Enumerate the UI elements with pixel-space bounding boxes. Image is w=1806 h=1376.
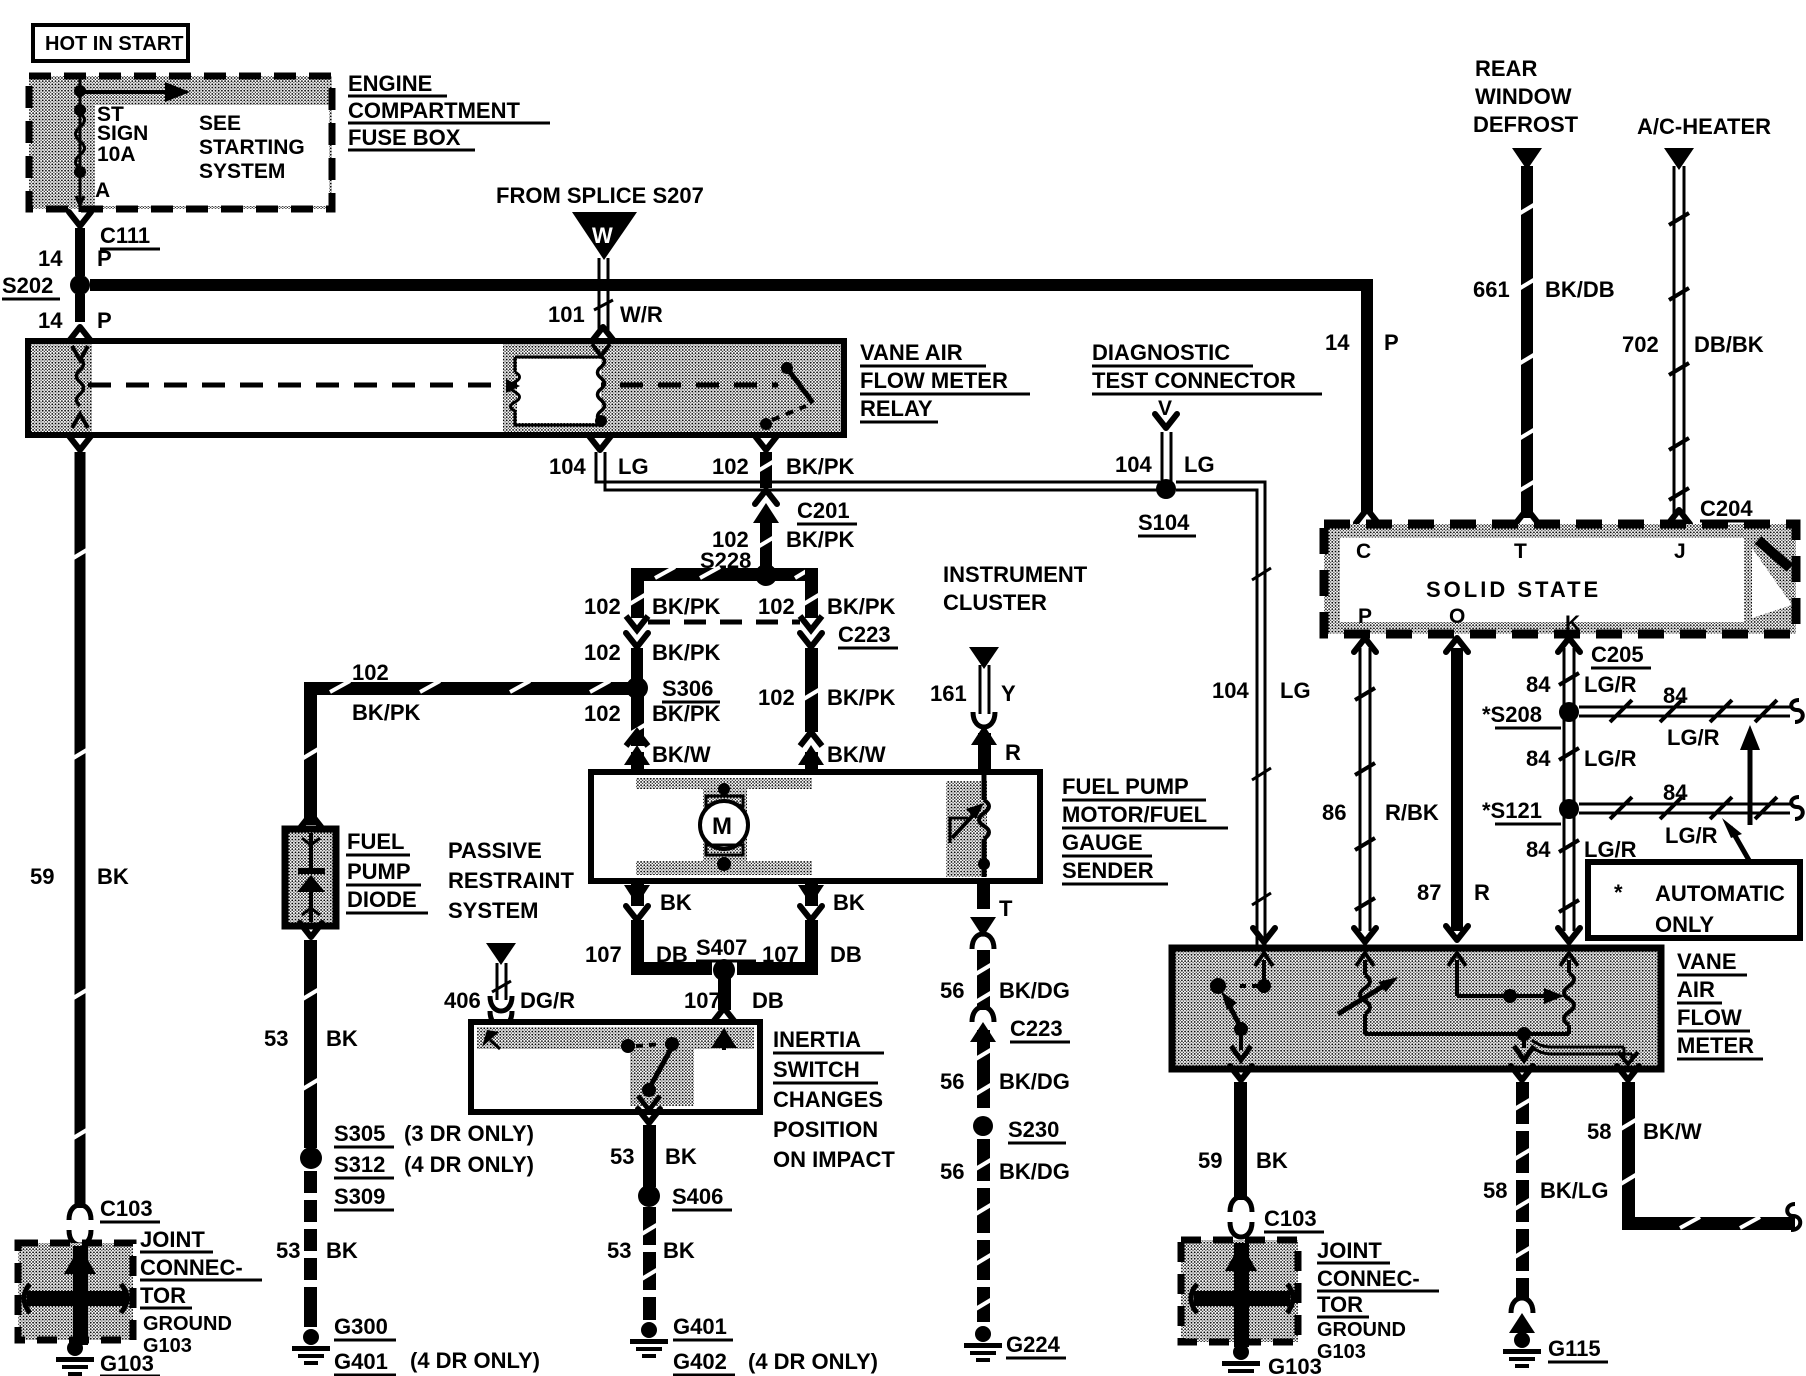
wire BK left exit <box>624 881 712 975</box>
splice S228 <box>700 548 777 586</box>
svg-text:O: O <box>1449 605 1465 628</box>
svg-text:AUTOMATIC: AUTOMATIC <box>1655 881 1785 906</box>
svg-text:FLOW: FLOW <box>1677 1005 1742 1030</box>
fuel pump motor M <box>700 783 748 871</box>
relay dashed link <box>88 383 778 388</box>
svg-text:TOR: TOR <box>140 1283 186 1308</box>
svg-text:G401: G401 <box>334 1349 388 1374</box>
fuel pump box <box>591 772 1040 881</box>
wire 84 LG/R (K) thin <box>1558 638 1580 942</box>
svg-text:LG: LG <box>618 454 649 479</box>
wire 14 P from C111 to S202 <box>38 228 112 276</box>
svg-text:S230: S230 <box>1008 1117 1059 1142</box>
svg-text:BK/PK: BK/PK <box>652 701 721 726</box>
label 84 LG/R between splices <box>1526 746 1637 771</box>
svg-text:84: 84 <box>1663 780 1688 805</box>
svg-text:53: 53 <box>610 1144 634 1169</box>
svg-text:84: 84 <box>1526 837 1551 862</box>
svg-text:FLOW METER: FLOW METER <box>860 368 1008 393</box>
svg-text:K: K <box>1565 612 1580 635</box>
svg-text:W: W <box>592 223 613 248</box>
svg-text:R: R <box>1005 740 1021 765</box>
svg-text:DG/R: DG/R <box>520 988 575 1013</box>
splice S207 W triangle <box>572 212 637 260</box>
svg-text:10A: 10A <box>97 143 136 166</box>
joint connector ground G103 right (dashed box) <box>1181 1240 1298 1347</box>
svg-text:59: 59 <box>30 864 54 889</box>
wire 14 P vertical to C204 <box>1325 279 1399 523</box>
svg-text:GAUGE: GAUGE <box>1062 830 1143 855</box>
connector C201 <box>753 490 857 524</box>
vane switch internals <box>1210 953 1273 1060</box>
splice S407 <box>585 935 862 981</box>
splice S121 <box>1482 798 1579 824</box>
svg-text:107: 107 <box>762 942 799 967</box>
connector C103 right <box>1230 1197 1324 1237</box>
svg-text:SENDER: SENDER <box>1062 858 1154 883</box>
solid state terminals <box>1356 540 1686 635</box>
label JOINT CONNECTOR GROUND G103 left <box>140 1227 262 1357</box>
relay switch right <box>760 362 813 430</box>
svg-text:84: 84 <box>1663 683 1688 708</box>
svg-text:BK/W: BK/W <box>652 742 711 767</box>
svg-text:S407: S407 <box>696 935 747 960</box>
svg-text:BK: BK <box>663 1238 695 1263</box>
svg-text:59: 59 <box>1198 1148 1222 1173</box>
svg-text:ON IMPACT: ON IMPACT <box>773 1147 895 1172</box>
svg-text:S305: S305 <box>334 1121 385 1146</box>
svg-text:53: 53 <box>276 1238 300 1263</box>
svg-text:G300: G300 <box>334 1314 388 1339</box>
svg-text:WINDOW: WINDOW <box>1475 84 1572 109</box>
svg-text:S309: S309 <box>334 1184 385 1209</box>
wire 56 BK/DG to G224 (dashed) <box>940 1139 1070 1322</box>
a/c heater arrow <box>1664 148 1694 170</box>
svg-text:C223: C223 <box>1010 1016 1063 1041</box>
svg-text:G103: G103 <box>1268 1354 1322 1376</box>
svg-text:BK: BK <box>660 890 692 915</box>
inertia switch box <box>471 1022 760 1112</box>
svg-text:BK/LG: BK/LG <box>1540 1178 1608 1203</box>
svg-text:C201: C201 <box>797 498 850 523</box>
svg-text:REAR: REAR <box>1475 56 1537 81</box>
svg-text:JOINT: JOINT <box>140 1227 205 1252</box>
relay box <box>28 341 844 435</box>
svg-text:P: P <box>1358 605 1372 628</box>
ground G401/G402 <box>630 1314 878 1375</box>
svg-text:BK/PK: BK/PK <box>827 685 896 710</box>
wire 102 BK/PK C201 to S228 <box>712 516 855 566</box>
connector C111 <box>69 212 160 249</box>
svg-text:ONLY: ONLY <box>1655 912 1714 937</box>
wire 86 R/BK (P) thin <box>1322 638 1439 942</box>
svg-text:661: 661 <box>1473 277 1510 302</box>
svg-text:CHANGES: CHANGES <box>773 1087 883 1112</box>
svg-text:LG/R: LG/R <box>1584 746 1637 771</box>
wire 53 BK below diode <box>264 923 358 1148</box>
svg-text:C: C <box>1356 540 1371 563</box>
wire 59 BK below vane meter <box>1198 928 1288 1200</box>
svg-text:FUEL PUMP: FUEL PUMP <box>1062 774 1189 799</box>
svg-text:BK: BK <box>326 1026 358 1051</box>
svg-text:W/R: W/R <box>620 302 663 327</box>
splice S208 <box>1482 702 1579 728</box>
wire left branch 102 BK/PK down <box>584 568 721 630</box>
wire 84 LG/R from S121 to right <box>1579 780 1803 848</box>
svg-text:FUEL: FUEL <box>347 829 404 854</box>
wire right branch below C223 to fuel pump <box>758 622 898 774</box>
svg-text:406: 406 <box>444 988 481 1013</box>
diagnostic test connector <box>1092 340 1322 484</box>
wire S228 horizontal tee <box>632 567 817 581</box>
svg-text:G401: G401 <box>673 1314 727 1339</box>
svg-text:S306: S306 <box>662 676 713 701</box>
svg-text:58: 58 <box>1483 1178 1507 1203</box>
svg-text:ENGINE: ENGINE <box>348 71 432 96</box>
svg-text:P: P <box>1384 330 1399 355</box>
svg-text:G224: G224 <box>1006 1332 1061 1357</box>
svg-text:104: 104 <box>549 454 586 479</box>
svg-text:DB: DB <box>656 942 688 967</box>
wire left branch to S306 <box>631 648 643 680</box>
fuel pump diode box <box>285 814 336 926</box>
label FUEL PUMP MOTOR/FUEL GAUGE SENDER <box>1062 774 1228 884</box>
svg-text:JOINT: JOINT <box>1317 1238 1382 1263</box>
svg-text:G103: G103 <box>1317 1341 1366 1363</box>
rear window defrost arrow <box>1512 148 1542 170</box>
svg-text:107: 107 <box>585 942 622 967</box>
wire 161 Y thin <box>930 665 1016 714</box>
svg-text:S104: S104 <box>1138 510 1190 535</box>
svg-text:S406: S406 <box>672 1184 723 1209</box>
svg-text:BK/DG: BK/DG <box>999 1159 1070 1184</box>
svg-text:FUSE BOX: FUSE BOX <box>348 125 461 150</box>
arrow to starting system <box>80 82 190 102</box>
ground G103 right symbol <box>1222 1344 1328 1376</box>
svg-text:GROUND: GROUND <box>143 1313 232 1335</box>
svg-text:RELAY: RELAY <box>860 396 933 421</box>
wire bus 14 P from S202 to right <box>90 279 1373 291</box>
label AUTOMATIC ONLY box <box>1588 862 1800 938</box>
svg-text:702: 702 <box>1622 332 1659 357</box>
splice S230 <box>973 1116 1066 1143</box>
svg-text:CLUSTER: CLUSTER <box>943 590 1047 615</box>
splice S202 <box>2 273 90 299</box>
label HOT IN START <box>33 25 188 61</box>
wire T below sender <box>970 881 1013 949</box>
vane air flow meter box <box>1172 948 1661 1069</box>
label VANE AIR FLOW METER RELAY <box>860 340 1030 422</box>
wire right branch 102 BK/PK down to C223 <box>758 568 896 630</box>
svg-text:BK/W: BK/W <box>1643 1119 1702 1144</box>
svg-text:84: 84 <box>1526 746 1551 771</box>
svg-text:C223: C223 <box>838 622 891 647</box>
wire 87 R (O) <box>1417 638 1490 940</box>
svg-text:101: 101 <box>548 302 585 327</box>
svg-text:87: 87 <box>1417 880 1441 905</box>
svg-text:14: 14 <box>38 308 63 333</box>
connector C103 left <box>69 1196 160 1245</box>
svg-text:BK: BK <box>833 890 865 915</box>
svg-text:VANE: VANE <box>1677 949 1737 974</box>
svg-text:*: * <box>1614 880 1623 905</box>
svg-text:104: 104 <box>1212 678 1249 703</box>
label VANE AIR FLOW METER <box>1677 949 1763 1059</box>
svg-text:T: T <box>1514 540 1527 563</box>
svg-text:SWITCH: SWITCH <box>773 1057 860 1082</box>
wire 104 LG thin double to S104 <box>596 452 1160 490</box>
connector at relay 104 <box>589 436 611 450</box>
vane potentiometer right <box>1448 953 1578 1060</box>
svg-text:R: R <box>1474 880 1490 905</box>
splice S104 <box>1138 479 1196 536</box>
svg-text:DIODE: DIODE <box>347 887 417 912</box>
ground G300/G401 <box>292 1314 540 1375</box>
svg-text:161: 161 <box>930 681 967 706</box>
svg-text:STARTING: STARTING <box>199 136 305 159</box>
svg-text:M: M <box>712 813 732 840</box>
svg-text:BK/PK: BK/PK <box>652 594 721 619</box>
labels C205 / 84 LG/R <box>1526 642 1651 697</box>
wire 102 BK/PK from S306 to left and down to diode <box>300 660 629 825</box>
relay coil center <box>506 344 610 427</box>
wire 84 LG/R from S208 to right <box>1579 683 1803 750</box>
svg-text:DB: DB <box>752 988 784 1013</box>
svg-text:BK/PK: BK/PK <box>827 594 896 619</box>
connector on left branch <box>584 633 721 665</box>
vane variable resistor <box>1338 953 1524 1034</box>
label PASSIVE RESTRAINT SYSTEM <box>448 838 574 923</box>
wire 104 LG from S104 to vane meter <box>1176 482 1311 948</box>
svg-text:58: 58 <box>1587 1119 1611 1144</box>
svg-text:DIAGNOSTIC: DIAGNOSTIC <box>1092 340 1230 365</box>
wire 56 BK/DG to C223 <box>940 950 1070 1010</box>
wire 53 BK to G401 <box>607 1207 695 1320</box>
svg-text:T: T <box>999 896 1013 921</box>
label 84 LG/R below S121 <box>1526 837 1637 862</box>
svg-text:86: 86 <box>1322 800 1346 825</box>
svg-text:(4 DR ONLY): (4 DR ONLY) <box>404 1152 534 1177</box>
wire BK right exit <box>737 881 865 975</box>
connector C223 lower <box>970 1007 1070 1042</box>
svg-text:BK: BK <box>1256 1148 1288 1173</box>
svg-text:CONNEC-: CONNEC- <box>1317 1266 1420 1291</box>
svg-text:PUMP: PUMP <box>347 859 411 884</box>
wire 58 BK/W below vane meter <box>1587 1066 1800 1230</box>
relay coil left <box>72 346 88 428</box>
svg-text:LG/R: LG/R <box>1584 672 1637 697</box>
svg-text:*S208: *S208 <box>1482 702 1542 727</box>
solid state box <box>1324 524 1796 634</box>
ground G224 <box>964 1326 1066 1362</box>
svg-text:G103: G103 <box>143 1335 192 1357</box>
svg-text:C111: C111 <box>100 223 150 248</box>
svg-text:BK/PK: BK/PK <box>786 527 855 552</box>
wire 107 DB from S407 to inertia switch <box>684 978 784 1022</box>
label REAR WINDOW DEFROST <box>1473 56 1579 137</box>
svg-text:G115: G115 <box>1548 1336 1601 1361</box>
svg-text:(4 DR ONLY): (4 DR ONLY) <box>748 1349 878 1374</box>
svg-text:102: 102 <box>758 685 795 710</box>
svg-text:DEFROST: DEFROST <box>1473 112 1579 137</box>
svg-text:MOTOR/FUEL: MOTOR/FUEL <box>1062 802 1207 827</box>
automatic only pointer arrow <box>1722 818 1750 862</box>
svg-text:TEST CONNECTOR: TEST CONNECTOR <box>1092 368 1296 393</box>
splice S305/S312 <box>300 1121 534 1210</box>
splice S406 <box>638 1184 732 1210</box>
svg-text:56: 56 <box>940 1069 964 1094</box>
svg-text:BK: BK <box>665 1144 697 1169</box>
svg-text:VANE AIR: VANE AIR <box>860 340 963 365</box>
svg-text:P: P <box>97 246 112 271</box>
svg-text:C205: C205 <box>1591 642 1644 667</box>
svg-text:SIGN: SIGN <box>97 122 148 145</box>
svg-text:53: 53 <box>607 1238 631 1263</box>
svg-text:S202: S202 <box>2 273 53 298</box>
svg-text:102: 102 <box>758 594 795 619</box>
svg-text:56: 56 <box>940 978 964 1003</box>
splice S306 <box>626 676 720 702</box>
wire 406 DG/R to inertia switch <box>444 943 575 1026</box>
engine compartment fuse box (dashed) <box>29 76 332 209</box>
vane thin wire to BK/W exit <box>1532 1040 1638 1064</box>
svg-text:BK/PK: BK/PK <box>352 700 421 725</box>
svg-text:(4 DR ONLY): (4 DR ONLY) <box>410 1348 540 1373</box>
wire 59 BK from relay to C103 <box>30 436 129 1208</box>
wire 53 BK to G300 (dashed) <box>276 1171 358 1327</box>
svg-text:LG: LG <box>1280 678 1311 703</box>
connector C204 label <box>1700 496 1760 521</box>
svg-text:PASSIVE: PASSIVE <box>448 838 542 863</box>
svg-text:(3 DR ONLY): (3 DR ONLY) <box>404 1121 534 1146</box>
svg-text:56: 56 <box>940 1159 964 1184</box>
wire 102 BK/PK relay to C201 <box>712 452 855 488</box>
label INSTRUMENT CLUSTER <box>943 562 1088 615</box>
svg-text:14: 14 <box>1325 330 1350 355</box>
svg-text:RESTRAINT: RESTRAINT <box>448 868 574 893</box>
label INERTIA SWITCH CHANGES POSITION ON IMPACT <box>773 1027 895 1172</box>
svg-text:METER: METER <box>1677 1033 1754 1058</box>
svg-text:P: P <box>97 308 112 333</box>
svg-text:INSTRUMENT: INSTRUMENT <box>943 562 1088 587</box>
wire 101 W/R (thin) <box>548 258 663 341</box>
wire 702 DB/BK thin <box>1622 166 1764 524</box>
connector to R wire <box>971 712 997 745</box>
svg-text:CONNEC-: CONNEC- <box>140 1255 243 1280</box>
svg-text:SYSTEM: SYSTEM <box>199 160 285 183</box>
fuel gauge sender resistor <box>950 775 990 877</box>
instrument cluster arrow <box>969 647 999 669</box>
connector at relay 102 <box>755 436 777 450</box>
svg-text:102: 102 <box>712 454 749 479</box>
fuse ST SIGN 10A <box>74 76 86 212</box>
wire 56 BK/DG to S230 <box>940 1030 1070 1108</box>
svg-text:BK/DG: BK/DG <box>999 978 1070 1003</box>
svg-text:AIR: AIR <box>1677 977 1715 1002</box>
svg-text:BK/DG: BK/DG <box>999 1069 1070 1094</box>
svg-text:LG/R: LG/R <box>1665 823 1718 848</box>
svg-text:84: 84 <box>1526 672 1551 697</box>
fuse labels <box>95 103 305 202</box>
svg-text:J: J <box>1674 540 1686 563</box>
svg-text:BK/W: BK/W <box>827 742 886 767</box>
svg-text:*S121: *S121 <box>1482 798 1542 823</box>
svg-text:G402: G402 <box>673 1349 727 1374</box>
svg-text:GROUND: GROUND <box>1317 1319 1406 1341</box>
svg-text:LG/R: LG/R <box>1667 725 1720 750</box>
svg-text:BK/PK: BK/PK <box>786 454 855 479</box>
svg-text:INERTIA: INERTIA <box>773 1027 861 1052</box>
svg-text:A/C-HEATER: A/C-HEATER <box>1637 114 1771 139</box>
svg-text:102: 102 <box>584 640 621 665</box>
wire R to fuel sender <box>978 733 1021 774</box>
svg-text:BK: BK <box>326 1238 358 1263</box>
label FUEL PUMP DIODE <box>346 829 428 913</box>
ground G103 left symbol <box>56 1340 160 1376</box>
svg-text:SYSTEM: SYSTEM <box>448 898 538 923</box>
automatic only arrow up <box>1740 725 1760 825</box>
svg-text:FROM SPLICE S207: FROM SPLICE S207 <box>496 183 704 208</box>
wire 53 BK below inertia switch <box>610 1109 697 1187</box>
wire 58 BK/LG below vane meter <box>1483 1066 1608 1300</box>
svg-text:BK: BK <box>97 864 129 889</box>
svg-text:14: 14 <box>38 246 63 271</box>
svg-text:C103: C103 <box>1264 1206 1317 1231</box>
dashed link between branches <box>648 620 800 625</box>
svg-text:POSITION: POSITION <box>773 1117 878 1142</box>
svg-text:104: 104 <box>1115 452 1152 477</box>
svg-text:102: 102 <box>352 660 389 685</box>
svg-text:BK/DB: BK/DB <box>1545 277 1615 302</box>
label JOINT CONNECTOR GROUND G103 right <box>1317 1238 1439 1363</box>
svg-text:107: 107 <box>684 988 721 1013</box>
svg-text:TOR: TOR <box>1317 1292 1363 1317</box>
svg-text:102: 102 <box>584 701 621 726</box>
svg-text:S312: S312 <box>334 1152 385 1177</box>
wire 661 BK/DB <box>1473 166 1615 523</box>
svg-text:A: A <box>95 179 110 202</box>
svg-text:SOLID STATE: SOLID STATE <box>1426 577 1601 602</box>
svg-text:BK/PK: BK/PK <box>652 640 721 665</box>
svg-text:LG: LG <box>1184 452 1215 477</box>
label ENGINE COMPARTMENT FUSE BOX <box>348 71 550 150</box>
svg-text:53: 53 <box>264 1026 288 1051</box>
svg-text:COMPARTMENT: COMPARTMENT <box>348 98 520 123</box>
wire 14 P below S202 <box>38 294 112 341</box>
svg-text:C103: C103 <box>100 1196 153 1221</box>
svg-text:Y: Y <box>1001 681 1016 706</box>
svg-text:102: 102 <box>584 594 621 619</box>
svg-text:DB/BK: DB/BK <box>1694 332 1764 357</box>
svg-text:HOT IN START: HOT IN START <box>45 33 184 55</box>
wire below S306 to fuel pump <box>584 696 721 774</box>
svg-text:LG/R: LG/R <box>1584 837 1637 862</box>
svg-text:R/BK: R/BK <box>1385 800 1439 825</box>
svg-text:DB: DB <box>830 942 862 967</box>
svg-text:SEE: SEE <box>199 112 241 135</box>
inertia switch contacts <box>482 1028 737 1110</box>
ground G115 <box>1503 1298 1608 1368</box>
svg-text:C204: C204 <box>1700 496 1753 521</box>
joint connector ground G103 left (dashed box) <box>18 1243 133 1345</box>
